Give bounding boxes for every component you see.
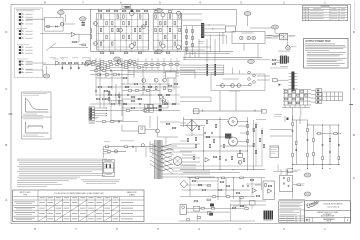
protection labels — [300, 183, 305, 186]
wire to output jacks — [265, 34, 282, 36]
preamp extra comps — [97, 74, 101, 76]
lv right cluster wires — [230, 208, 244, 210]
ribbon caption — [280, 65, 288, 68]
ribbon cable J10 — [280, 56, 283, 64]
speaker output jack J6 box — [280, 33, 288, 39]
reg wires — [186, 207, 230, 209]
preamp vertical rails — [99, 58, 101, 108]
header P2 caption — [198, 40, 204, 43]
IC dark marks — [159, 105, 162, 107]
notes footer line — [17, 185, 47, 188]
protection board box — [280, 175, 293, 191]
emitter resistors — [143, 86, 145, 89]
amp lower bus wires — [183, 57, 262, 59]
input jack J10 — [19, 52, 24, 55]
ps label top right — [274, 114, 282, 117]
ps cluster caps — [204, 132, 207, 134]
preamp bus wire A — [128, 70, 195, 72]
mid lower right box — [261, 109, 266, 113]
title bottom cells — [308, 217, 310, 222]
matrix to connector wires — [311, 89, 316, 91]
bias box — [238, 154, 243, 158]
input jack J4 — [19, 22, 24, 25]
input jack J7 — [19, 37, 24, 40]
aux row wire — [96, 121, 138, 123]
oval E9 — [248, 60, 255, 64]
board transistor Q22 — [237, 84, 241, 88]
lv comps row1 — [195, 177, 199, 179]
response graph panel frame — [22, 92, 52, 139]
speaker jack box — [232, 32, 265, 44]
lv right cluster — [232, 207, 236, 209]
jack J7 label — [291, 46, 297, 49]
wire W1 to header — [277, 79, 288, 81]
preamp fill verticals — [145, 58, 147, 70]
preamp fill row A — [96, 61, 180, 63]
channel A components — [100, 15, 102, 18]
mid transistor Q9 — [163, 78, 167, 82]
mid lower rail — [193, 110, 264, 112]
pot circles cluster — [248, 71, 251, 74]
stack labels — [89, 120, 96, 122]
mid transistor Q7 — [142, 79, 146, 83]
preamp mid fill — [125, 86, 129, 88]
output transistor Q16 — [177, 11, 181, 15]
AC neutral row — [104, 151, 127, 153]
AC plug body — [103, 162, 113, 173]
ps lower comps — [213, 156, 217, 158]
impedance matrix rows — [283, 90, 311, 106]
connector stack CN3 — [89, 112, 94, 115]
chain label — [53, 58, 59, 60]
svg-text:B: B — [353, 133, 355, 137]
title block frame — [305, 201, 351, 223]
right bottom rail — [292, 164, 340, 166]
matrix resistors — [284, 91, 288, 93]
transistor Q1 — [60, 22, 64, 26]
preamp mid-left chains — [108, 91, 110, 94]
svg-text:INPUT POWER: INPUT POWER — [20, 192, 32, 194]
input jack J11 — [19, 60, 24, 63]
zone letters right margin — [353, 30, 356, 180]
wire oval drops — [60, 14, 62, 17]
resistor R13 — [75, 62, 79, 64]
mid-left bracket wires — [180, 96, 211, 98]
left feed labels — [267, 35, 273, 38]
bias transistor Q25 — [238, 160, 242, 164]
amp feedback column — [90, 29, 92, 32]
wire jack down — [287, 40, 289, 46]
speaker jack SJ1 — [240, 36, 244, 40]
preamp transistor Q4 — [100, 67, 104, 71]
plug prong L — [106, 164, 107, 168]
ps bottom rail — [180, 169, 265, 171]
aux labels — [91, 116, 99, 118]
graph1 header text — [23, 92, 47, 95]
lower aux wire — [273, 170, 297, 172]
resistor R2 row — [46, 26, 50, 28]
AC plug box — [103, 160, 115, 177]
signature cells — [279, 215, 305, 217]
header J12 pin stubs — [295, 73, 298, 75]
ps center fill — [187, 138, 189, 141]
filter cap C31 — [296, 141, 298, 144]
transformer extra secondary — [172, 143, 200, 145]
bridge wires — [180, 124, 186, 126]
output power test note box — [304, 39, 349, 69]
svg-text:B: B — [5, 143, 7, 147]
speaker jack SJ2 — [247, 36, 251, 40]
secondary lower fan — [161, 173, 210, 175]
transformer fan extra — [161, 144, 172, 171]
power switch SW1 — [114, 150, 117, 153]
label box W1 — [273, 79, 278, 82]
preamp transistor Q6 — [128, 60, 132, 64]
revision rows text — [303, 9, 305, 12]
aux wires — [121, 125, 123, 131]
vertical drop from top rail — [235, 9, 237, 26]
general notes text block — [17, 158, 107, 161]
phase splitter block — [111, 101, 123, 121]
ribbon cable J11 tail — [288, 56, 290, 62]
AC area labels — [102, 148, 109, 150]
Fender logo script — [306, 199, 320, 208]
board internal wire — [216, 85, 250, 87]
graph panel divider — [22, 116, 52, 118]
resistor R12 — [68, 62, 72, 64]
mid verticals — [219, 91, 221, 112]
preamp fill row B — [96, 67, 160, 69]
connector stack CN4 — [89, 115, 94, 118]
stamp oval bottom E4 — [155, 50, 162, 54]
amp block outline emphasis — [97, 13, 149, 50]
svg-text:D: D — [306, 218, 308, 222]
input jack J1 — [19, 13, 24, 16]
drawing notes block — [279, 201, 305, 222]
small ref table — [323, 92, 343, 101]
vertical wire x65 — [65, 15, 67, 23]
thermal opamp U9 — [268, 189, 272, 193]
amp inner fill — [100, 28, 102, 31]
svg-text:A: A — [353, 176, 355, 180]
ps mid column comps — [247, 124, 249, 127]
component chain CH2 — [192, 29, 194, 32]
table column lines — [38, 190, 120, 222]
barcode caption — [264, 220, 273, 223]
lv rails — [188, 177, 265, 179]
line out oval E6 — [272, 25, 279, 29]
power transistor Q24 TO-3 — [229, 137, 238, 146]
input jack J9 — [19, 49, 24, 52]
right cells column — [299, 210, 301, 222]
connector column CN10 — [316, 89, 322, 92]
preamp transistor Q5 — [117, 60, 121, 64]
connector column CN12 — [316, 97, 322, 100]
preamp bus wire B — [128, 71, 195, 73]
ps extra wires — [183, 119, 228, 121]
preamp extra verticals — [95, 58, 97, 96]
wire panel lower outputs — [26, 62, 46, 64]
power amp bottom rail — [90, 50, 233, 52]
amp channel B grid — [152, 13, 154, 50]
panel group divider labels — [17, 27, 27, 29]
mid extra verticals — [198, 39, 200, 58]
output transistor Q13 — [130, 44, 135, 49]
fx chain wire — [43, 64, 90, 66]
table subheader labels — [40, 197, 45, 200]
regulator U8 box — [180, 205, 186, 215]
mid transistor Q8 — [154, 78, 158, 82]
driver box pins — [163, 72, 166, 74]
chain droppers — [61, 65, 63, 70]
arrow mark — [279, 84, 282, 86]
rail top entries — [284, 116, 286, 122]
fuse and transformer table — [13, 190, 145, 222]
graph1 curve — [26, 99, 48, 110]
reverb driver box — [166, 72, 177, 79]
transformer T1 core circle — [173, 157, 182, 166]
preamp bus bend — [194, 71, 196, 78]
lv verticals — [217, 178, 219, 200]
wires to title area — [230, 200, 266, 202]
opto box U5 — [139, 126, 145, 134]
pot wiper diagonal — [46, 43, 56, 51]
graph2 header text — [23, 118, 43, 121]
lv bottom verticals — [196, 214, 198, 221]
capacitor C9 — [81, 62, 84, 64]
connector column CN13 — [316, 100, 322, 103]
thermal comps — [265, 183, 267, 186]
reg comps — [201, 208, 205, 210]
wires right of board — [257, 75, 270, 77]
rail x313 — [313, 125, 315, 165]
preamp top row wire — [90, 64, 180, 66]
title divider1 — [305, 210, 351, 212]
small trim boxes — [82, 22, 85, 24]
graph2 trace — [28, 125, 43, 127]
bias op-amp U6 — [205, 158, 209, 162]
driver transistor Q10 — [94, 22, 98, 26]
transformer right wires — [161, 145, 177, 147]
bridge rectifier BR1 — [186, 120, 197, 131]
svg-text:TYPE: TYPE — [23, 194, 27, 196]
protection caps — [283, 177, 286, 179]
power amp label box — [122, 5, 131, 9]
preamp mid fill wires — [122, 86, 180, 88]
filter cap C32 — [307, 128, 309, 131]
wire bottom tone row — [50, 47, 88, 49]
input jack panel enclosure — [14, 8, 43, 77]
jack caption — [278, 50, 290, 53]
input jack J6 — [19, 33, 24, 36]
horizontal links — [293, 119, 308, 121]
wire label — [120, 140, 134, 143]
power transistor Q23 TO-3 — [229, 117, 238, 126]
svg-text:REVISIONS: REVISIONS — [321, 6, 330, 8]
panel internal wire — [20, 22, 22, 30]
bus down wires — [300, 108, 302, 116]
amp left rail — [89, 9, 91, 51]
board transistor Q20 — [221, 84, 225, 88]
input jack J5 — [19, 30, 24, 33]
output transistor Q17 — [177, 45, 181, 49]
ps extra comps — [198, 126, 200, 129]
plug bottom mark — [106, 173, 112, 175]
svg-text:OUTPUT POWER TEST:: OUTPUT POWER TEST: — [305, 41, 331, 43]
preamp second row comps — [94, 70, 98, 72]
graph1 axes — [25, 98, 27, 113]
preamp bottom exit wires — [90, 110, 180, 112]
transformer secondary wires — [182, 157, 200, 159]
ps wires — [183, 117, 185, 127]
mid row wire — [122, 83, 170, 85]
pin junction dots — [209, 24, 210, 25]
wire input signal to V1 stage — [26, 18, 45, 20]
input jack J8 — [19, 46, 24, 49]
wire U1A input — [40, 33, 71, 35]
filter cap C30 — [292, 122, 294, 125]
preamp row components — [91, 64, 95, 66]
zone numbers top margin — [44, 1, 326, 5]
wire to notes area — [279, 198, 305, 200]
lv opamp U7 — [252, 188, 256, 192]
jack box wires — [241, 37, 242, 38]
zone letters left margin — [5, 30, 8, 202]
ribbon feed wires — [274, 59, 280, 62]
preamp oval E8 — [114, 57, 121, 61]
graph2 axes — [25, 122, 27, 134]
board drop wires — [223, 65, 225, 74]
mid lower box — [194, 109, 200, 114]
transistor Q19 — [156, 129, 160, 133]
ps bottom rail2 — [183, 171, 240, 173]
preamp-to-ps verticals — [149, 116, 151, 128]
phones board box — [211, 74, 265, 91]
preamp low wires — [122, 94, 152, 96]
op-amp U3A — [160, 95, 164, 99]
stamp oval E5 — [244, 12, 251, 16]
stamp oval E10 — [304, 173, 311, 177]
graph2 caption — [23, 134, 38, 136]
header drop verticals — [210, 35, 212, 52]
output transistor Q12 — [130, 11, 135, 16]
transistor Q3 — [85, 62, 89, 66]
headphone jack J7 — [286, 46, 290, 50]
transformer extra fan — [150, 144, 161, 171]
wire front-end output — [63, 23, 75, 25]
op-amp U3B — [163, 100, 167, 104]
lower preamp boxes — [131, 96, 135, 98]
bleeder R41 — [334, 133, 338, 135]
plug prong N — [110, 164, 111, 168]
right ps caps — [321, 144, 324, 146]
bleeder R40 — [317, 133, 321, 135]
revision history table — [303, 5, 348, 21]
preamp extra dots — [99, 64, 100, 65]
stack exit wires — [94, 107, 106, 109]
rail verticals right — [292, 116, 294, 169]
dark relay box — [225, 134, 231, 139]
ribbon cable J11 — [284, 56, 287, 64]
board transistor Q21 — [231, 84, 235, 88]
connector stack CN2 — [89, 110, 94, 113]
title divider2 — [305, 216, 351, 218]
stamp oval E11 — [304, 192, 311, 196]
mid lower stubs — [202, 109, 204, 111]
connector column CN11 — [316, 93, 322, 96]
AC row verticals — [103, 147, 105, 158]
preamp-ps link comps — [166, 123, 170, 125]
mid right fill — [272, 59, 276, 61]
protection output wire — [293, 184, 297, 186]
lv extra boxes — [194, 200, 198, 202]
input jack J2 — [19, 16, 24, 19]
wire feed to jack — [273, 35, 280, 37]
zone numbers bottom margin — [34, 227, 326, 231]
wire to footswitch oval — [46, 66, 48, 74]
aux row components — [102, 121, 106, 123]
jack J6 label — [289, 34, 296, 37]
header pin wires — [204, 24, 225, 26]
input jack J12 — [19, 63, 24, 66]
stamp oval E1 — [57, 10, 64, 14]
title left small rows — [305, 219, 310, 221]
feedback resistor R5 — [73, 41, 77, 43]
connector stack CN5 — [89, 117, 94, 120]
svg-text:0057269000: 0057269000 — [323, 219, 335, 221]
wires amp to headers — [182, 13, 203, 15]
mid bus wires left — [180, 64, 224, 66]
lv comps row2 — [207, 185, 211, 187]
power wiring caption below — [81, 179, 120, 182]
wires to right — [230, 204, 266, 206]
transformer fan wires — [161, 146, 173, 174]
ps center fill wires — [186, 134, 204, 136]
board caption — [229, 90, 240, 93]
resistor R11 — [62, 62, 66, 64]
matrix bottom bus — [282, 107, 310, 109]
svg-text:A: A — [5, 198, 7, 202]
op-amp U1A — [71, 32, 75, 36]
header caption — [204, 59, 209, 62]
footswitch oval FS1 — [43, 74, 50, 78]
diode D20 — [287, 118, 289, 121]
low-voltage rectifier BR2 — [180, 180, 188, 188]
panel title text — [16, 8, 40, 11]
protection feed verticals — [280, 169, 282, 175]
caution label box — [270, 146, 279, 157]
stamp oval top E3 — [155, 9, 162, 13]
lv bottom comps — [187, 218, 190, 221]
graph1 caption — [23, 113, 37, 115]
input stage block V1 — [45, 17, 64, 31]
speaker jack SJ3 — [252, 36, 256, 40]
output transistor Q15 — [161, 44, 165, 48]
preamp fill comps — [92, 61, 96, 63]
wire oval to jack — [274, 29, 276, 33]
thermal board box — [263, 181, 274, 199]
tone pot circles — [62, 58, 64, 60]
plug top mark — [106, 159, 112, 162]
op-amp U2A — [56, 61, 60, 65]
power amp top rail — [60, 8, 236, 10]
amp extra comps — [98, 10, 102, 12]
IC connector group — [145, 104, 149, 108]
wire oval E5 drop — [247, 16, 249, 27]
output transistor Q14 — [161, 13, 165, 17]
tone label row — [50, 57, 56, 60]
component chain CH1 — [186, 29, 188, 32]
